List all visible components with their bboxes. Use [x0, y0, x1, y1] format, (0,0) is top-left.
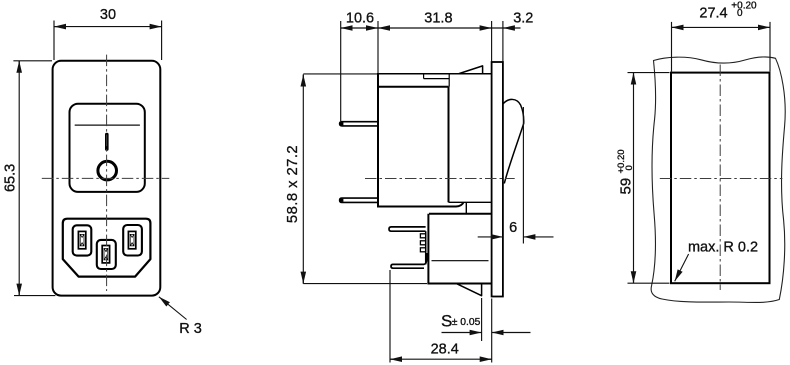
svg-text:65.3: 65.3: [3, 164, 19, 192]
inlet inner edge: [432, 260, 489, 262]
svg-text:31.8: 31.8: [424, 11, 452, 27]
switch body top: [377, 86, 449, 88]
note max R 0.2: [675, 254, 689, 281]
svg-text:0: 0: [737, 8, 743, 19]
terminal tab lower: [340, 198, 378, 202]
svg-text:3.2: 3.2: [513, 11, 533, 27]
svg-text:6: 6: [509, 220, 517, 236]
centerline side: [365, 178, 515, 180]
inlet body front: [427, 214, 429, 284]
flange side: [492, 62, 503, 297]
dim 6 (panel clamp): [522, 107, 524, 244]
centerline vertical front: [106, 55, 108, 291]
dim 30 front: [54, 21, 162, 61]
terminal tab upper: [340, 122, 378, 126]
center pin shaft with barbs: [425, 231, 427, 264]
svg-text:58.8 x 27.2: 58.8 x 27.2: [285, 145, 301, 223]
switch I marking: [105, 133, 109, 151]
switch body rear: [448, 87, 450, 203]
top dims side: [341, 21, 521, 121]
body top edge: [303, 73, 378, 75]
top snap hook: [459, 66, 483, 74]
inlet body bottom: [427, 283, 491, 285]
cutout rectangle: [671, 73, 770, 284]
switch rocker split line: [75, 124, 140, 126]
pin blade N right: [128, 231, 135, 248]
inlet recess outline: [63, 219, 151, 277]
svg-text:30: 30: [100, 7, 116, 23]
retaining spring: [503, 99, 524, 183]
centerline horizontal front: [42, 177, 170, 179]
switch bezel front: [70, 104, 145, 192]
svg-text:+0.20: +0.20: [731, 1, 757, 12]
pin blade E center: [102, 246, 109, 263]
svg-text:28.4: 28.4: [431, 342, 459, 358]
inlet body top: [429, 213, 492, 215]
flange outline front: [53, 61, 161, 296]
switch body: front face: [377, 74, 379, 207]
bottom snap hook: [457, 284, 482, 296]
svg-text:max. R 0.2: max. R 0.2: [688, 240, 758, 256]
svg-text:0: 0: [624, 165, 635, 170]
top rail step: [424, 78, 450, 80]
pin slot L: [73, 225, 92, 255]
pin upper side: [389, 227, 426, 231]
svg-text:± 0.05: ± 0.05: [452, 317, 481, 328]
svg-text:59: 59: [618, 178, 635, 195]
svg-text:10.6: 10.6: [346, 11, 374, 27]
svg-text:S: S: [441, 311, 452, 330]
svg-text:R 3: R 3: [179, 321, 202, 337]
torn panel outline: [651, 57, 785, 303]
note R 3: [159, 297, 187, 320]
dim 28.4: [390, 270, 492, 363]
dim 27.4: [672, 22, 771, 72]
centerline vertical cutout: [719, 65, 721, 291]
ledge to flange: [449, 201, 492, 203]
svg-text:27.4: 27.4: [699, 5, 727, 21]
dim 58.8 x 27.2: [303, 75, 427, 284]
pin blade L: [78, 231, 85, 248]
pin slot N (right): [123, 225, 142, 256]
switch O marking: [98, 161, 117, 180]
pin lower side: [391, 253, 427, 268]
centerline horizontal cutout: [660, 178, 783, 180]
dim 59: [628, 73, 670, 284]
pin slot E (center): [97, 240, 116, 269]
dim 65.3 front: [13, 61, 55, 296]
switch body bottom with fillet: [377, 202, 464, 206]
